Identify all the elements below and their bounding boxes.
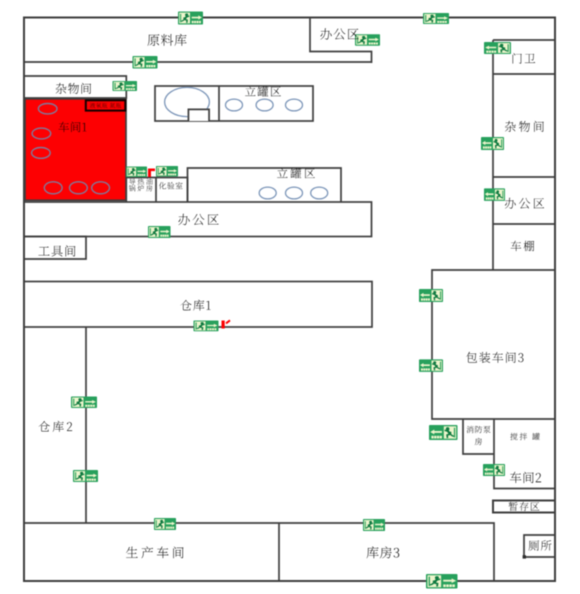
workshop1 red hazard zone xyxy=(25,99,126,201)
exit sign (bottom wall, large) xyxy=(426,574,458,588)
fire extinguisher marker (boiler) xyxy=(148,169,155,178)
exit sign (production workshop) xyxy=(154,518,176,530)
exit sign (packing upper) xyxy=(419,289,443,302)
tank area (middle) box xyxy=(188,168,342,202)
exit sign (sundries right) xyxy=(481,137,504,150)
boiler room box xyxy=(126,178,156,203)
re-draw notch box over circle xyxy=(189,109,210,121)
workshop2 box xyxy=(494,419,555,489)
packing workshop3 box xyxy=(432,270,555,419)
exit sign (top wall right) xyxy=(423,13,449,24)
workshop1 tank ellipses xyxy=(32,104,110,194)
right column walls: gatehouse, sundries, office, carport xyxy=(493,39,555,41)
raw material warehouse bottom wall xyxy=(24,61,372,63)
exit sign (warehouse2 lower) xyxy=(73,470,98,482)
exit sign (office right) xyxy=(484,188,505,200)
tank notch box xyxy=(189,109,210,121)
exit sign (lab) xyxy=(156,166,178,176)
temporary storage box xyxy=(493,501,555,513)
exit sign (storeroom3) xyxy=(363,519,385,531)
tank circles (middle tank area) xyxy=(259,187,276,199)
office (middle band) box xyxy=(24,202,372,237)
exit sign (top office) xyxy=(355,34,380,46)
hazard cylinder label box xyxy=(86,100,126,110)
exit sign (warehouse1) xyxy=(194,321,219,332)
lab room box xyxy=(156,178,188,203)
exit sign (top wall) xyxy=(178,12,203,25)
office(top) box xyxy=(310,18,372,64)
tank area (top) box xyxy=(155,86,313,121)
exit sign (packing lower) xyxy=(419,359,443,371)
production workshop / storeroom3 walls xyxy=(24,523,494,581)
exit sign (warehouse2 upper) xyxy=(71,397,97,409)
junction dot (toilet corner) xyxy=(523,555,526,558)
fire extinguisher marker (warehouse1) xyxy=(222,320,231,329)
exit sign (fire pump, large) xyxy=(429,425,458,440)
warehouse2 divider wall xyxy=(85,327,87,523)
room name labels xyxy=(147,34,186,46)
tool room box xyxy=(24,237,86,260)
tank circles (top tank area) xyxy=(165,87,328,199)
toilet box xyxy=(524,535,555,557)
exit sign (workshop2) xyxy=(483,464,505,476)
fire pump room box xyxy=(463,419,494,454)
exit sign (boiler room) xyxy=(126,167,147,177)
exit sign (office middle) xyxy=(148,226,171,238)
warehouse1 band box xyxy=(24,282,372,328)
exit sign (sundries left) xyxy=(113,81,138,91)
exit sign (raw material wall) xyxy=(133,56,158,68)
exit sign (gatehouse) xyxy=(484,42,511,54)
sundries room (left) box xyxy=(24,76,126,98)
